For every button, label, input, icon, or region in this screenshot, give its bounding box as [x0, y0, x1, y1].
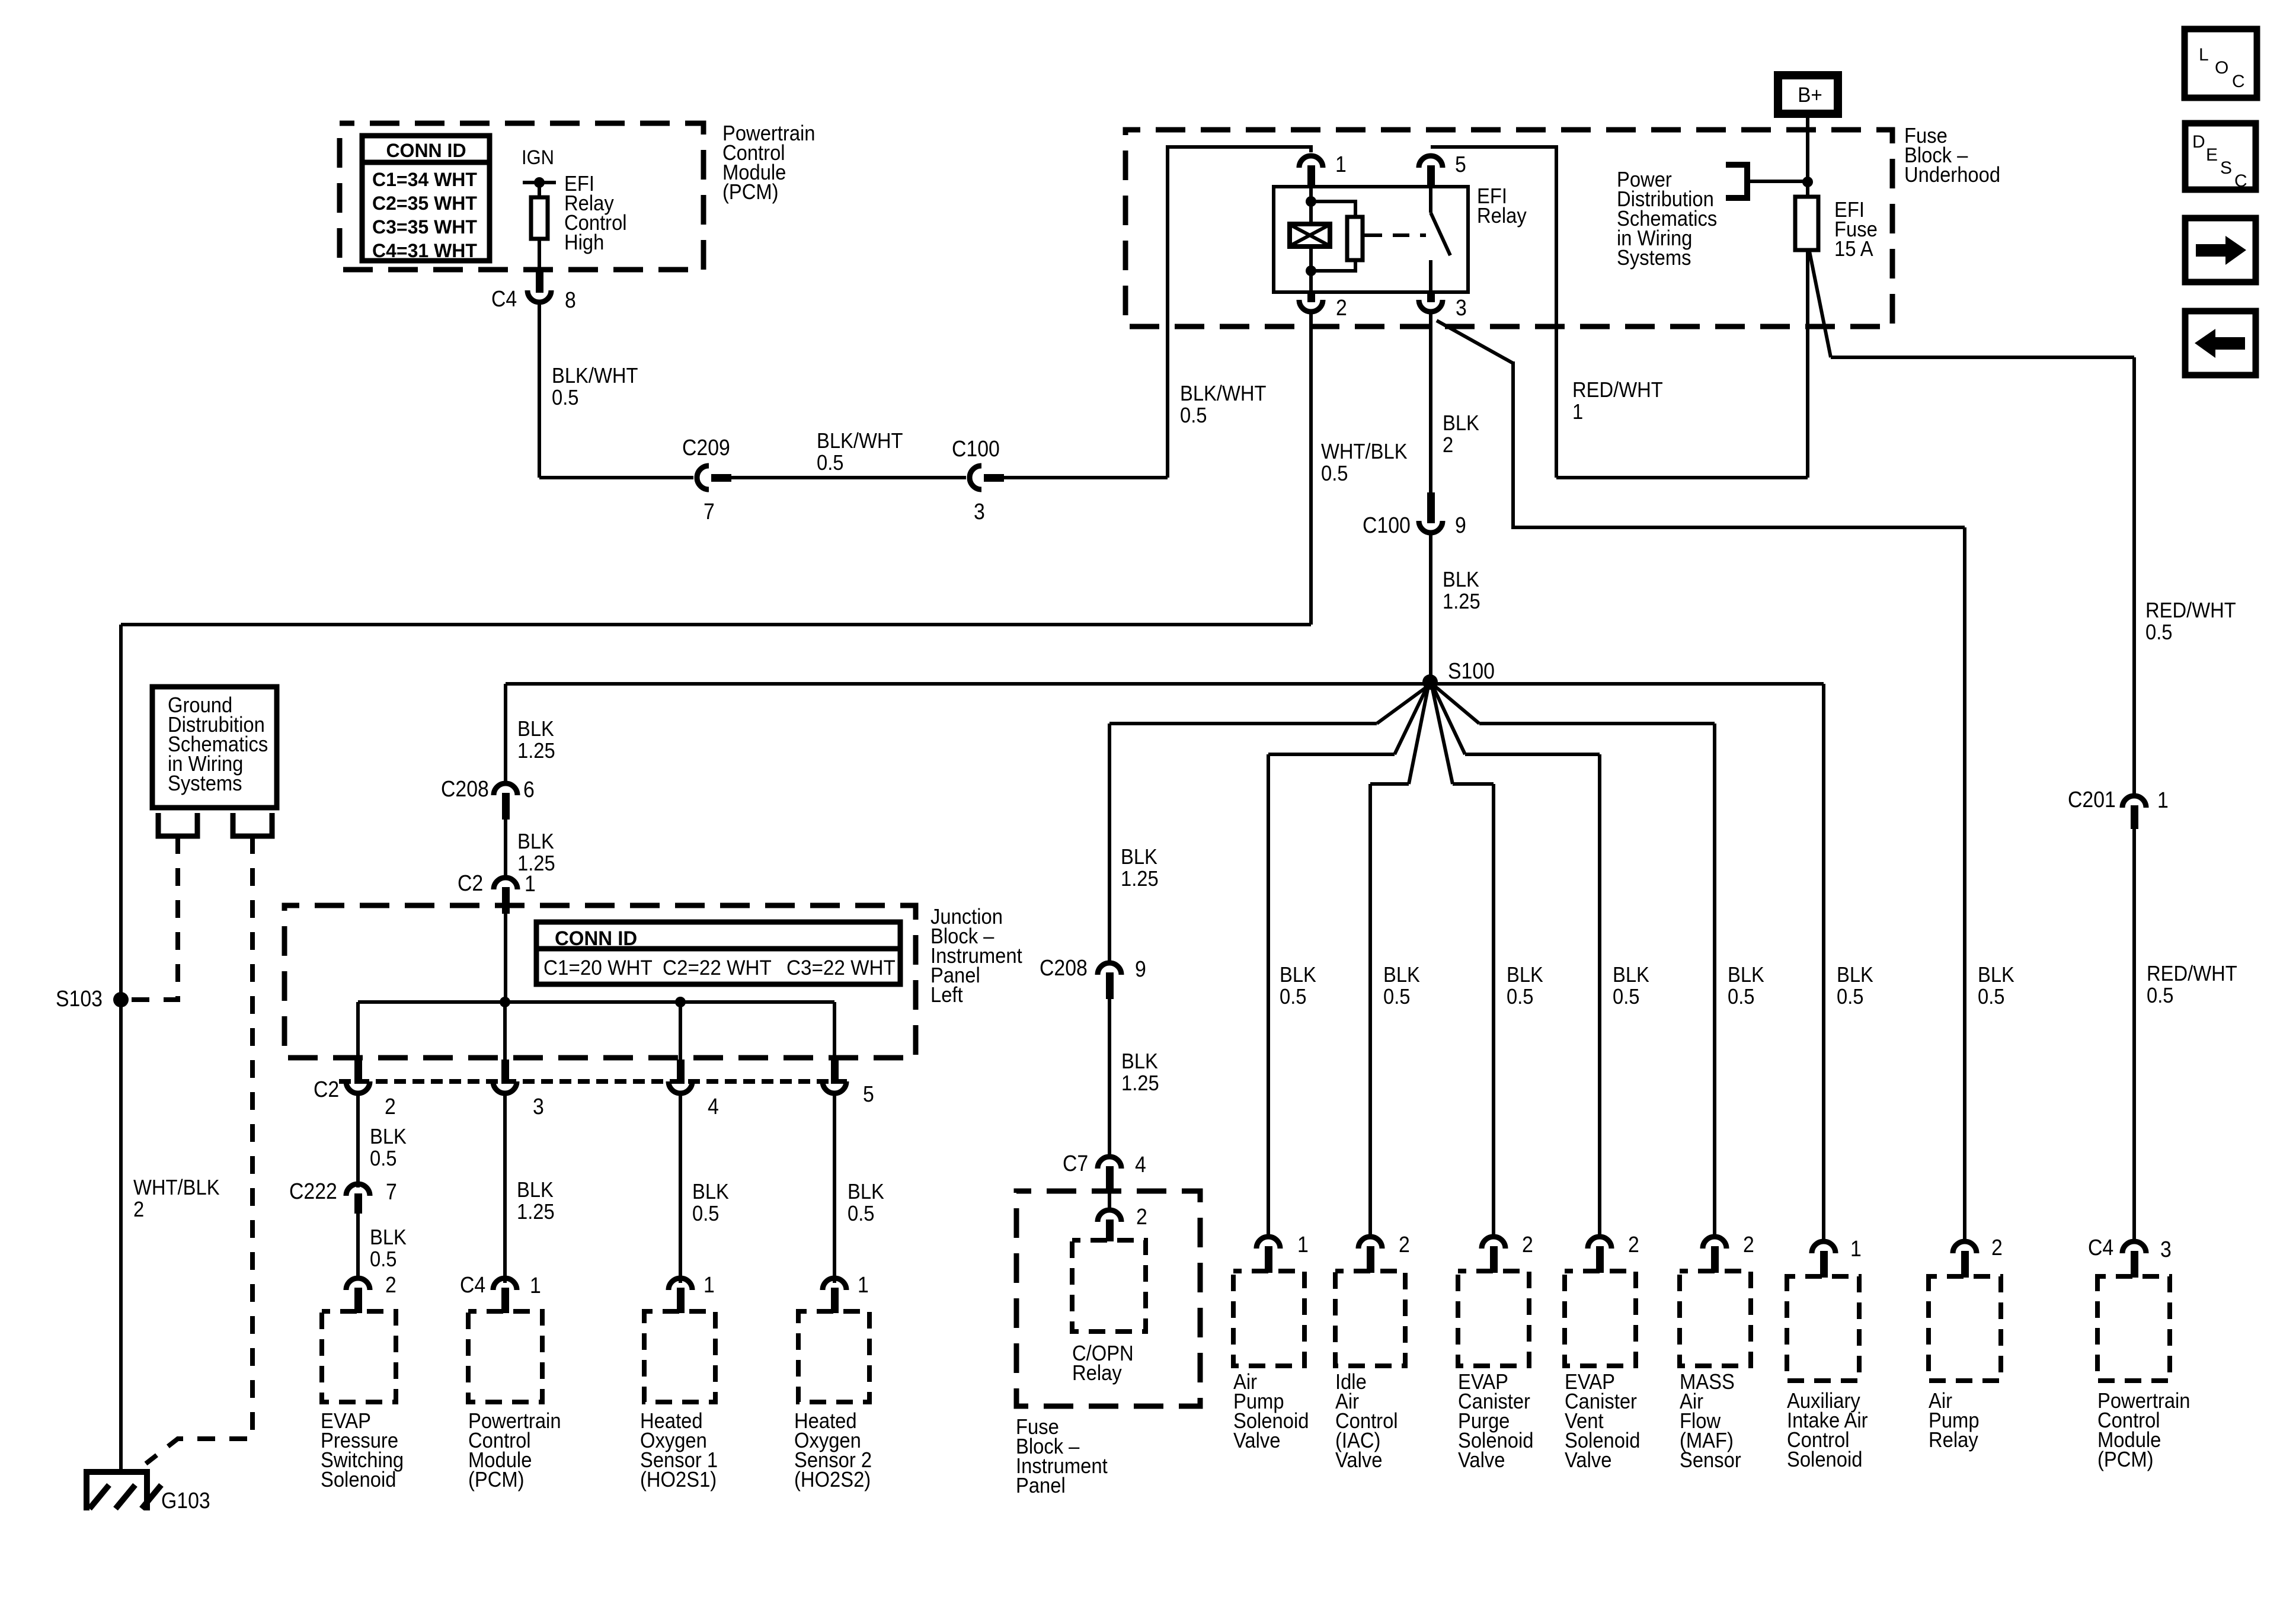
- svg-text:1: 1: [525, 870, 536, 896]
- wire WHT/BLK 0.5 across: [1511, 526, 1965, 529]
- resistor EFI Relay Control High (inside PCM): [531, 197, 548, 239]
- HO2S1 pin 1 connector: [669, 1278, 692, 1290]
- Junction Block CONN ID table frame: [536, 922, 900, 984]
- svg-text:C208: C208: [441, 776, 489, 801]
- wire BLK 1.25 down to C208-9: [1108, 724, 1111, 961]
- dashed reference wire to G103: [146, 836, 252, 1464]
- wire BLK 1.25 C208-6 to C2-1: [504, 820, 507, 876]
- svg-text:C222: C222: [289, 1178, 337, 1204]
- svg-text:1: 1: [530, 1272, 541, 1298]
- svg-text:3: 3: [533, 1093, 544, 1119]
- svg-text:BLK1.25: BLK1.25: [517, 718, 555, 763]
- connector C208 pin 9: [1098, 963, 1121, 975]
- wire into junction block bus: [504, 914, 507, 1002]
- EFI Fuse 15 A element: [1795, 197, 1818, 250]
- splice S100: [1422, 674, 1438, 690]
- EVAP Pressure Switching Solenoid pin 2 connector: [346, 1278, 370, 1290]
- relay internal resistor: [1347, 217, 1363, 260]
- EFI relay pin 3 connector: [1427, 291, 1435, 302]
- relay switch blade: [1431, 213, 1450, 255]
- svg-text:C2: C2: [314, 1076, 339, 1102]
- svg-text:7: 7: [703, 498, 715, 524]
- svg-text:BLK1.25: BLK1.25: [1121, 846, 1159, 891]
- Junction Block - Instrument Panel Left dashed box: [284, 905, 916, 1058]
- junction block drop to pin 5: [833, 1002, 836, 1061]
- wire BLK 0.5 S100 diagonal (EVAP vent): [1434, 688, 1465, 754]
- MASS Air Flow Sensor box: [1680, 1271, 1751, 1366]
- svg-text:C4: C4: [460, 1272, 485, 1297]
- relay parallel branch top: [1311, 201, 1355, 217]
- dashed reference wire to S103: [129, 836, 178, 1000]
- C/OPN Relay pin 2 connector: [1098, 1210, 1121, 1222]
- svg-text:2: 2: [385, 1272, 396, 1297]
- HO2S2 pin 1 connector: [823, 1278, 846, 1290]
- connector C201 pin 1: [2122, 796, 2146, 808]
- relay switch lower contact: [1429, 260, 1432, 292]
- svg-text:S100: S100: [1448, 658, 1495, 683]
- wire B+ to EFI fuse: [1806, 117, 1809, 197]
- connector C208 pin 6: [494, 783, 517, 795]
- wire BLK 0.5 across (EVAP vent): [1465, 753, 1600, 756]
- svg-text:C100: C100: [1363, 512, 1411, 537]
- ground symbol G103: [84, 1472, 150, 1510]
- wire resistor to PCM pin C4-8: [538, 239, 541, 271]
- wire BLK 0.5 across (IAC): [1370, 782, 1409, 786]
- svg-text:O: O: [2215, 58, 2228, 78]
- svg-text:C209: C209: [682, 434, 730, 460]
- S100 ground bus: [506, 682, 1824, 686]
- junction block drop to pin 3: [503, 1002, 507, 1061]
- svg-text:S103: S103: [56, 985, 103, 1011]
- svg-text:4: 4: [708, 1093, 719, 1119]
- connector C209 pin 7: [697, 466, 709, 489]
- wire WHT/BLK 2 down to ground: [119, 625, 123, 1472]
- Fuse Block - Underhood dashed box: [1125, 130, 1892, 327]
- IGN feed tick: [523, 181, 556, 184]
- wire BLK 0.5 down to EVAP vent valve: [1598, 754, 1601, 1238]
- svg-text:3: 3: [1456, 295, 1467, 320]
- EVAP Canister Vent Solenoid Valve box: [1565, 1271, 1636, 1366]
- wire WHT/BLK 0.5 across to left: [121, 623, 1311, 626]
- wire RED/WHT 0.5 across: [1831, 356, 2134, 359]
- svg-text:CONN ID: CONN ID: [555, 928, 637, 950]
- PCM connector C4 pin 1: [493, 1278, 517, 1290]
- svg-text:BLK1.25: BLK1.25: [1443, 568, 1480, 614]
- wire BLK 0.5 down to MAF sensor: [1713, 724, 1716, 1238]
- wire BLK 0.5 pin4 to HO2S1: [679, 1093, 682, 1283]
- junction block connector face line: [339, 1079, 848, 1084]
- svg-text:1: 1: [1335, 151, 1347, 177]
- wire BLK 1.25 to S100: [1429, 533, 1432, 682]
- relay resistor tap: [1363, 233, 1382, 237]
- wire BLK 1.25 across: [1109, 722, 1377, 725]
- svg-text:CONN ID: CONN ID: [386, 140, 466, 161]
- relay parallel branch bottom: [1311, 260, 1355, 271]
- wire RED/WHT 0.5 C201 to PCM: [2132, 829, 2136, 1243]
- Air Pump Relay pin 2 connector: [1953, 1241, 1977, 1253]
- svg-text:1: 1: [1850, 1235, 1862, 1261]
- wire BLK 0.5 S100 diagonal (Air Pump Solenoid): [1395, 688, 1427, 754]
- svg-text:1: 1: [703, 1272, 715, 1297]
- junction block connector pin 5: [831, 1060, 839, 1084]
- junction block connector pin 4: [677, 1060, 685, 1084]
- EVAP Pressure Switching Solenoid box: [322, 1311, 396, 1402]
- Heated Oxygen Sensor 2 box: [798, 1311, 869, 1402]
- forward arrow legend box: [2185, 218, 2256, 282]
- wire BLK 0.5 C222 to solenoid: [356, 1214, 360, 1280]
- svg-text:2: 2: [1399, 1231, 1410, 1257]
- PCM CONN ID table frame: [362, 136, 490, 261]
- wire BLK 0.5 down to IAC valve: [1368, 784, 1372, 1238]
- connector C100 pin 3: [970, 466, 981, 489]
- relay coil X stroke: [1291, 225, 1329, 245]
- connector C7 pin 4: [1098, 1157, 1121, 1169]
- svg-text:3: 3: [2160, 1236, 2172, 1262]
- Powertrain Control Module (PCM) box bottom left: [468, 1311, 542, 1402]
- wire BLK 0.5 pin5 to HO2S2: [833, 1093, 836, 1283]
- wire BLK 0.5 pin2 to C222: [356, 1093, 360, 1188]
- wire WHT/BLK 0.5 from relay pin 2: [1309, 312, 1313, 625]
- back arrow legend box: [2185, 311, 2256, 375]
- svg-text:C3=22 WHT: C3=22 WHT: [786, 956, 896, 980]
- wire BLK 1.25 S100 to C208-9 diagonal: [1377, 686, 1428, 724]
- svg-text:C2=22 WHT: C2=22 WHT: [663, 956, 772, 980]
- svg-text:C2: C2: [458, 870, 483, 895]
- svg-text:4: 4: [1135, 1151, 1146, 1177]
- Ground Distribution Schematics reference box: [152, 687, 277, 808]
- svg-text:6: 6: [523, 776, 535, 802]
- wire BLK 0.5 across (EVAP purge): [1453, 782, 1494, 786]
- svg-text:5: 5: [1455, 151, 1466, 177]
- relay coil wire top: [1309, 187, 1313, 224]
- svg-text:9: 9: [1455, 512, 1466, 537]
- wire RED/WHT 1 riser to pin 5: [1431, 147, 1556, 478]
- EFI relay pin 2 connector: [1307, 291, 1315, 302]
- power distribution take-off bracket: [1726, 165, 1747, 198]
- svg-text:BLK1.25: BLK1.25: [1121, 1050, 1159, 1096]
- Junction Block CONN ID header underline: [536, 946, 900, 952]
- junction block drop to pin 4: [679, 1002, 682, 1061]
- svg-text:IGN: IGN: [522, 146, 554, 169]
- junction block connector pin 3: [501, 1060, 509, 1084]
- svg-text:C1=20 WHT: C1=20 WHT: [543, 956, 653, 980]
- svg-text:1: 1: [2157, 787, 2169, 812]
- wire WHT/BLK 0.5 down: [1511, 361, 1515, 527]
- splice S103: [113, 992, 129, 1007]
- Fuse Block - Instrument Panel dashed box: [1016, 1191, 1200, 1406]
- svg-text:BLK1.25: BLK1.25: [517, 1179, 555, 1224]
- Powertrain Control Module (PCM) box bottom right: [2097, 1276, 2170, 1381]
- svg-text:2: 2: [385, 1093, 396, 1119]
- EVAP Canister Purge Solenoid Valve pin 2 connector: [1482, 1237, 1505, 1249]
- wire BLK/WHT 0.5 horizontal to C209: [539, 476, 693, 479]
- EFI relay pin 1 connector: [1299, 156, 1323, 168]
- wire BLK 0.5 S100 diagonal (IAC): [1409, 689, 1428, 784]
- svg-text:2: 2: [1136, 1204, 1147, 1229]
- junction dot at fuse feed: [1802, 177, 1813, 187]
- wire BLK 0.5 S100 diagonal (EVAP purge): [1432, 689, 1453, 784]
- svg-text:5: 5: [863, 1081, 874, 1106]
- wire BLK/WHT 0.5 C209 to C100: [731, 476, 966, 479]
- svg-text:2: 2: [1522, 1231, 1533, 1257]
- back arrow icon: [2215, 337, 2245, 350]
- wire BLK 1.25 bus left drop: [504, 684, 507, 782]
- wire BLK 0.5 across (MAF): [1479, 722, 1715, 725]
- Auxiliary Intake Air Control Solenoid box: [1787, 1276, 1859, 1381]
- svg-text:C4: C4: [2088, 1234, 2113, 1260]
- svg-text:3: 3: [974, 498, 985, 524]
- PCM CONN ID table header underline: [362, 160, 490, 165]
- wire RED/WHT 0.5 diagonal from fuse: [1809, 251, 1831, 357]
- PCM connector C4 pin 3: [2122, 1241, 2146, 1253]
- EFI relay pin 5 connector: [1419, 156, 1443, 168]
- wire BLK 0.5 across (Air Pump Solenoid): [1268, 753, 1395, 756]
- connector C100 pin 9: [1427, 492, 1435, 523]
- C/OPN Relay box: [1072, 1240, 1146, 1331]
- PCM (Powertrain Control Module) dashed box: [340, 123, 703, 270]
- IAC Valve pin 2 connector: [1358, 1237, 1382, 1249]
- wire BLK 2 from relay pin 3: [1429, 312, 1432, 492]
- Air Pump Relay box: [1929, 1276, 2001, 1381]
- svg-text:1: 1: [858, 1272, 869, 1297]
- svg-text:D: D: [2192, 132, 2205, 152]
- EVAP Canister Vent Solenoid Valve pin 2 connector: [1588, 1237, 1611, 1249]
- ground distribution left leg terminal: [158, 813, 197, 836]
- svg-text:2: 2: [1336, 295, 1347, 320]
- Auxiliary Intake Air Control Solenoid pin 1 connector: [1812, 1241, 1835, 1253]
- svg-text:G103: G103: [161, 1487, 210, 1513]
- svg-text:1: 1: [1297, 1231, 1309, 1257]
- wire BLK 0.5 bus right drop to Auxiliary solenoid: [1822, 684, 1825, 1243]
- junction block connector C2 pin 2: [354, 1060, 362, 1084]
- Heated Oxygen Sensor 1 box: [644, 1311, 715, 1402]
- wire BLK 1.25 pin3 to PCM C4-1: [503, 1093, 507, 1283]
- wire BLK/WHT 0.5 from C4-8 down: [538, 302, 541, 478]
- svg-text:S: S: [2220, 158, 2232, 178]
- svg-text:8: 8: [565, 287, 576, 312]
- svg-text:BLK1.25: BLK1.25: [517, 830, 555, 876]
- wire C7-4 to C/OPN relay: [1108, 1193, 1111, 1209]
- svg-text:B+: B+: [1798, 84, 1822, 107]
- EVAP Canister Purge Solenoid Valve box: [1458, 1271, 1529, 1366]
- svg-text:C201: C201: [2068, 786, 2116, 812]
- svg-text:C7: C7: [1063, 1150, 1088, 1176]
- EFI Relay box: [1274, 187, 1468, 292]
- wire bracket to B+ feed: [1747, 180, 1808, 183]
- wire BLK 0.5 down to EVAP purge valve: [1492, 784, 1495, 1238]
- wire BLK 0.5 down to Air Pump Relay: [1963, 527, 1966, 1243]
- connector C4 pin 8 of PCM: [536, 270, 543, 293]
- svg-text:C4: C4: [491, 286, 517, 311]
- relay internal junction bottom: [1306, 265, 1316, 276]
- svg-text:9: 9: [1135, 956, 1146, 981]
- DESC legend box: [2185, 123, 2256, 190]
- relay coil element: [1290, 224, 1330, 247]
- wire BLK 1.25 C208-9 to C7-4: [1108, 999, 1111, 1155]
- wire WHT/BLK 0.5 diagonal from pin 3: [1437, 321, 1513, 363]
- wire RED/WHT 0.5 down to C201: [2132, 357, 2136, 794]
- svg-text:C208: C208: [1040, 955, 1088, 980]
- junction block internal bus: [358, 1000, 834, 1004]
- svg-text:E: E: [2206, 145, 2218, 165]
- junction block bus dot at pin 3: [500, 997, 510, 1007]
- Idle Air Control Valve box: [1335, 1271, 1405, 1366]
- svg-text:L: L: [2199, 45, 2209, 65]
- relay coil wire bottom: [1309, 247, 1313, 292]
- svg-text:C100: C100: [952, 436, 1000, 461]
- relay internal junction top: [1306, 196, 1316, 207]
- svg-text:7: 7: [386, 1179, 397, 1204]
- svg-text:2: 2: [1628, 1231, 1639, 1257]
- relay switch upper contact: [1429, 187, 1432, 213]
- wire BLK/WHT 0.5 C100 to riser: [1004, 476, 1168, 479]
- junction block drop to pin 2: [356, 1002, 360, 1061]
- svg-text:AuxiliaryIntake AirControlSole: AuxiliaryIntake AirControlSolenoid: [1787, 1390, 1868, 1472]
- svg-text:2: 2: [1743, 1231, 1754, 1257]
- svg-text:C: C: [2234, 171, 2247, 191]
- LOC legend box: [2185, 29, 2257, 98]
- Air Pump Solenoid Valve pin 1 connector: [1256, 1237, 1280, 1249]
- wire BLK/WHT 0.5 riser up: [1166, 147, 1169, 478]
- connector C2 pin 1 of junction block: [494, 878, 517, 889]
- wire IGN to resistor: [538, 183, 541, 197]
- B+ battery feed terminal box: [1778, 75, 1838, 114]
- wire RED/WHT 1 fuse down: [1806, 250, 1809, 478]
- forward arrow icon: [2196, 244, 2225, 257]
- ground distribution right leg terminal: [233, 813, 272, 836]
- wire to EFI relay pin 1: [1166, 147, 1311, 152]
- wire BLK 0.5 S100 diagonal (MAF): [1435, 686, 1479, 724]
- IGN junction dot: [534, 177, 545, 188]
- connector C222 pin 7: [346, 1184, 370, 1196]
- MAF Sensor pin 2 connector: [1703, 1237, 1726, 1249]
- relay mechanical link (dashed): [1393, 233, 1426, 237]
- wire BLK 0.5 down to Air Pump Solenoid Valve: [1267, 754, 1270, 1238]
- Air Pump Solenoid Valve box: [1233, 1271, 1304, 1366]
- svg-text:C: C: [2232, 72, 2245, 91]
- svg-text:2: 2: [1991, 1234, 2003, 1260]
- wire RED/WHT 1 across: [1556, 476, 1808, 479]
- junction block bus dot at pin 4: [675, 997, 686, 1007]
